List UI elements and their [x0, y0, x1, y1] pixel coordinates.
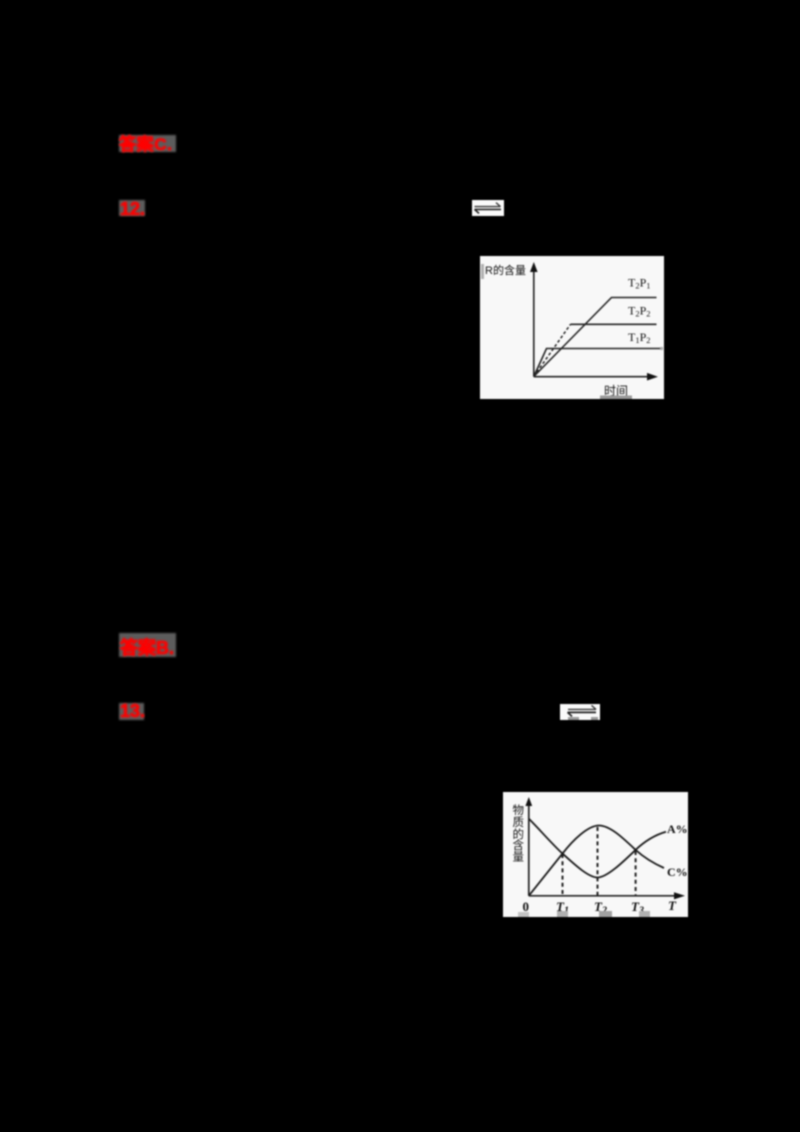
curve T2P1 [534, 298, 657, 377]
svg-text:量: 量 [513, 851, 525, 864]
equilibrium symbol 1 [472, 200, 504, 216]
y axis [528, 803, 530, 896]
svg-text:A%: A% [667, 822, 688, 836]
x axis [529, 895, 677, 897]
question number 12. [119, 200, 145, 216]
y axis [533, 270, 535, 377]
svg-text:0: 0 [523, 899, 530, 914]
x axis [534, 376, 650, 378]
question number 13. [119, 703, 144, 720]
svg-text:质: 质 [513, 816, 525, 829]
curve A% (valley) [529, 819, 666, 878]
figure 2: substance content vs T chart [503, 792, 688, 917]
gray tail artifact right of T1P2 line [660, 347, 663, 350]
svg-text:R的含量: R的含量 [485, 263, 526, 277]
curve T2P2 (dashed rise) [534, 324, 571, 376]
svg-text:T: T [668, 898, 677, 913]
svg-text:物: 物 [513, 803, 525, 817]
answer label 2 (答案B.) [119, 633, 176, 657]
gray bar artifact left [481, 264, 484, 279]
svg-text:含: 含 [513, 838, 525, 852]
curve T1P2 [534, 349, 660, 377]
dashed T2 [597, 827, 599, 896]
dashed T3 [635, 851, 637, 896]
curve C% (hill) [529, 826, 664, 896]
answer label 1 (答案C.) [119, 135, 176, 152]
gray strip artifact bottom [600, 396, 632, 400]
gray smudges bottom [518, 912, 529, 917]
dashed T1 [562, 854, 564, 896]
equilibrium symbol 2 [560, 704, 600, 720]
figure 1: R content vs time chart [480, 256, 664, 399]
svg-text:C%: C% [667, 865, 688, 879]
svg-text:的: 的 [513, 827, 525, 841]
